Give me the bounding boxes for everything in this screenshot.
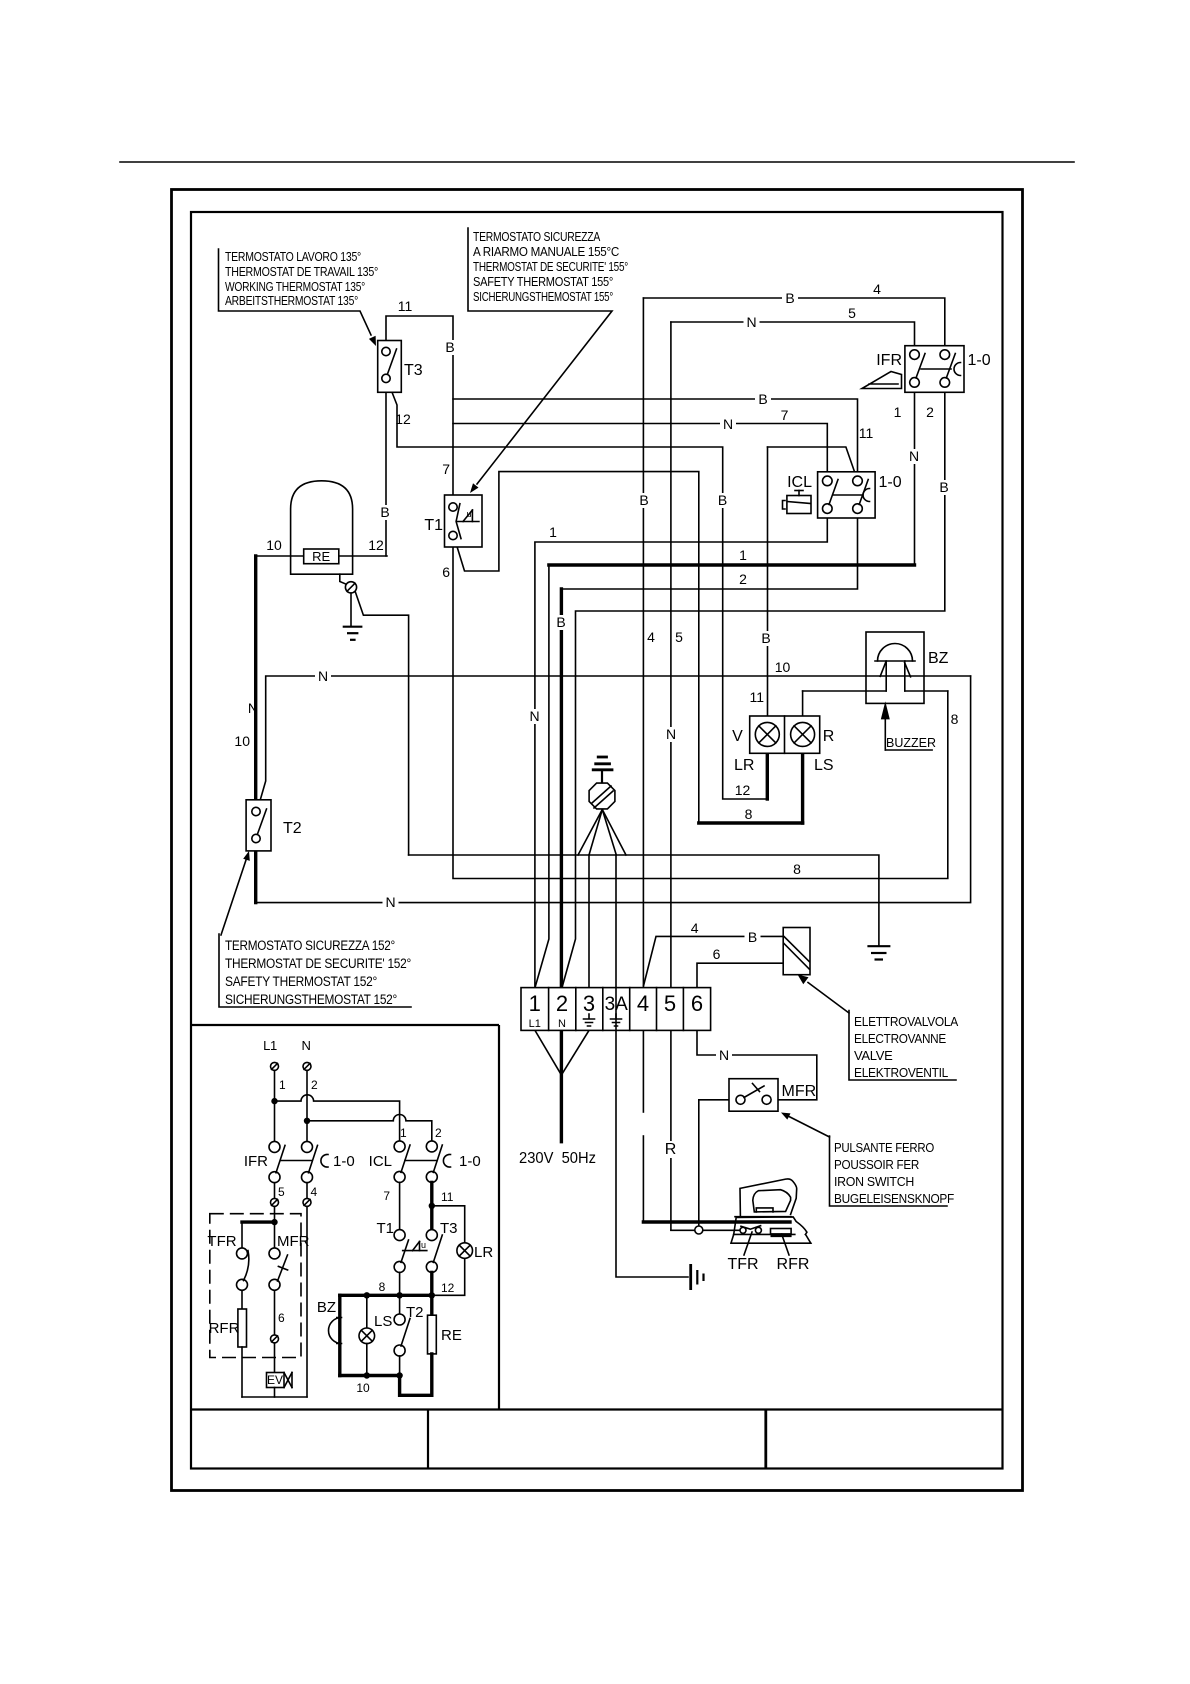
resistor RE box xyxy=(304,549,339,564)
svg-text:6: 6 xyxy=(442,564,450,580)
svg-text:11: 11 xyxy=(749,689,764,705)
svg-text:SICHERUNGSTHEMOSTAT 155°: SICHERUNGSTHEMOSTAT 155° xyxy=(473,290,613,304)
inset thick wire T3 to node 12 xyxy=(430,1272,433,1315)
svg-text:B: B xyxy=(748,929,757,945)
wire from MFR to iron junction xyxy=(699,1100,729,1230)
inset thermostat T3 xyxy=(426,1230,437,1241)
svg-text:TERMOSTATO LAVORO 135°: TERMOSTATO LAVORO 135° xyxy=(225,250,361,264)
wire N bottom run to right riser xyxy=(256,676,971,903)
wire 12 from T3 to lamp LR loop xyxy=(388,382,767,799)
wire 4 B to electrovalve xyxy=(644,936,784,985)
svg-text:B: B xyxy=(380,504,389,520)
terminal block below: V junction to 230V feed xyxy=(535,1030,561,1075)
svg-text:1: 1 xyxy=(529,991,541,1016)
pump fan wires xyxy=(578,810,602,856)
svg-text:B: B xyxy=(785,290,794,306)
inset lamp LR xyxy=(457,1243,473,1259)
boiler drain valve circle xyxy=(345,582,356,593)
wire earth through terminal 3A to bottom earth xyxy=(616,855,688,1277)
inset thick wire ICL to T3 xyxy=(430,1182,433,1229)
wire B from IFR pin2 to terminal 2 xyxy=(562,388,945,988)
title block divider 1 xyxy=(427,1410,429,1469)
inset switch ICL poles xyxy=(394,1141,405,1152)
iron handle latch xyxy=(756,1208,773,1212)
text block 152 border xyxy=(219,934,411,1007)
svg-text:2: 2 xyxy=(435,1126,442,1140)
svg-text:10: 10 xyxy=(234,733,250,749)
svg-text:N: N xyxy=(385,894,395,910)
pulsante text border xyxy=(830,1136,948,1206)
iron body bottom line xyxy=(734,1233,795,1235)
svg-text:11: 11 xyxy=(441,1190,454,1204)
wire B feed to lamp LR top xyxy=(767,447,769,723)
inset contact TFR xyxy=(237,1248,248,1259)
lamp box V R xyxy=(750,716,820,753)
svg-text:2: 2 xyxy=(926,404,934,420)
svg-text:2: 2 xyxy=(311,1078,318,1092)
pump motor chassis bars xyxy=(597,756,608,759)
top rule xyxy=(120,161,1074,163)
svg-text:1: 1 xyxy=(279,1078,286,1092)
iron base plate xyxy=(731,1234,811,1243)
inset wire L1 to ICL1 with bridge xyxy=(275,1095,400,1141)
svg-text:PULSANTE FERRO: PULSANTE FERRO xyxy=(834,1140,934,1155)
iron platform xyxy=(734,1217,807,1235)
svg-text:IFR: IFR xyxy=(244,1153,268,1170)
title block divider 2 xyxy=(764,1410,767,1469)
electrovalve leader arrow xyxy=(808,983,849,1014)
svg-text:5: 5 xyxy=(675,629,683,645)
wire 6 to electrovalve xyxy=(697,963,783,987)
svg-text:SAFETY THERMOSTAT 155°: SAFETY THERMOSTAT 155° xyxy=(473,275,613,289)
inset frame top xyxy=(191,1024,499,1026)
svg-text:ARBEITSTHERMOSTAT 135°: ARBEITSTHERMOSTAT 135° xyxy=(225,294,358,308)
svg-text:1: 1 xyxy=(400,1126,407,1140)
iron pictogram beside IFR xyxy=(862,372,902,389)
svg-text:4: 4 xyxy=(311,1185,318,1199)
svg-text:T3: T3 xyxy=(440,1220,458,1237)
wire from drain to pump fan run xyxy=(355,592,408,856)
svg-text:12: 12 xyxy=(735,782,751,798)
svg-text:4: 4 xyxy=(873,281,881,297)
wire B from T3 pin12 down to RE xyxy=(385,384,387,556)
svg-text:T1: T1 xyxy=(376,1220,394,1237)
svg-text:LS: LS xyxy=(814,757,834,774)
iron handle outline xyxy=(740,1179,797,1217)
svg-text:N: N xyxy=(301,1038,310,1053)
wire 4 B from IFR pin4 top xyxy=(643,298,944,349)
svg-text:2: 2 xyxy=(556,991,568,1016)
svg-text:LR: LR xyxy=(474,1244,493,1261)
svg-text:IRON SWITCH: IRON SWITCH xyxy=(834,1174,914,1189)
svg-text:230V 50Hz: 230V 50Hz xyxy=(519,1150,596,1167)
svg-text:4: 4 xyxy=(637,991,649,1016)
svg-text:1-0: 1-0 xyxy=(879,474,902,491)
buzzer dome xyxy=(878,644,913,662)
text block 155 leader arrow xyxy=(468,228,612,484)
wire N from terminal 6 to MFR xyxy=(697,1030,817,1099)
RFR leader xyxy=(782,1234,789,1255)
inset node N junction xyxy=(304,1118,310,1124)
svg-text:LR: LR xyxy=(734,757,754,774)
svg-text:1-0: 1-0 xyxy=(333,1153,355,1170)
svg-text:N: N xyxy=(909,448,919,464)
wire R from terminal 5 to iron xyxy=(670,1030,672,1230)
inset thermostat T1 xyxy=(394,1230,405,1241)
inset thick branch to TFR xyxy=(242,1220,275,1223)
svg-text:V: V xyxy=(732,728,743,745)
on-wire letter labels with background xyxy=(782,291,798,306)
MFR leader arrow xyxy=(787,1116,830,1138)
wire N T2 bottom thick down xyxy=(254,844,257,903)
svg-text:B: B xyxy=(445,339,454,355)
pump stem xyxy=(601,770,603,783)
terminal 3A pass-through wire xyxy=(615,988,617,1031)
svg-text:N: N xyxy=(723,416,733,432)
svg-text:8: 8 xyxy=(951,711,959,727)
svg-text:12: 12 xyxy=(395,411,411,427)
svg-text:N: N xyxy=(558,1018,566,1030)
svg-text:1: 1 xyxy=(739,547,747,563)
lamp LR bottom stub thick xyxy=(766,752,769,799)
svg-text:RFR: RFR xyxy=(777,1256,810,1273)
inset wire MFR to EV xyxy=(274,1290,276,1335)
inset wire N down xyxy=(306,1070,308,1141)
wire 7 from T1 feed node to ICL pin top-left xyxy=(453,424,827,476)
wire 1 from ICL pin to terminal 1 xyxy=(535,514,827,988)
junction circle at iron xyxy=(695,1226,703,1234)
earth symbol right xyxy=(867,945,890,947)
svg-text:B: B xyxy=(718,492,727,508)
terminal earth glyph cell 3A xyxy=(611,1014,622,1026)
svg-text:8: 8 xyxy=(745,806,753,822)
switch MFR box xyxy=(729,1079,778,1112)
svg-text:TERMOSTATO SICUREZZA 152°: TERMOSTATO SICUREZZA 152° xyxy=(225,938,395,953)
wire segment 11 into ICL pin with diagonal xyxy=(768,447,857,476)
pump motor octagon xyxy=(589,783,615,809)
svg-text:TERMOSTATO SICUREZZA: TERMOSTATO SICUREZZA xyxy=(473,230,601,244)
svg-text:12: 12 xyxy=(368,537,384,553)
lamp LS bottom stub thick xyxy=(801,752,804,823)
svg-text:VALVE: VALVE xyxy=(854,1048,893,1063)
inset supply terminal N xyxy=(303,1062,311,1070)
svg-text:T2: T2 xyxy=(406,1304,424,1321)
svg-text:ELETTROVALVOLA: ELETTROVALVOLA xyxy=(854,1014,959,1029)
switch IFR xyxy=(905,346,964,393)
svg-text:6: 6 xyxy=(713,946,721,962)
svg-text:10: 10 xyxy=(356,1381,370,1395)
lamp LR xyxy=(755,722,779,746)
svg-text:RE: RE xyxy=(312,549,330,564)
inset thick rail 8 xyxy=(340,1294,432,1297)
wire from T1 pin6 down to buzzer 8 run xyxy=(453,541,948,879)
terminal block xyxy=(521,988,711,1031)
wire 8 buzzer run to lamp LS top xyxy=(803,690,887,692)
inset thick rail 10 xyxy=(340,1374,400,1377)
svg-text:4: 4 xyxy=(691,920,699,936)
svg-text:L1: L1 xyxy=(529,1018,541,1030)
svg-text:ELECTROVANNE: ELECTROVANNE xyxy=(854,1031,947,1046)
svg-text:THERMOSTAT DE SECURITE' 152°: THERMOSTAT DE SECURITE' 152° xyxy=(225,956,411,971)
terminal earth glyph cell 3 xyxy=(584,1014,595,1026)
wire N 10 top run from T2 top xyxy=(259,676,971,806)
text block 152 leader arrow xyxy=(221,860,246,935)
inset bottom rail left xyxy=(242,1396,307,1398)
svg-text:LS: LS xyxy=(374,1313,392,1330)
svg-text:N: N xyxy=(248,700,258,716)
svg-text:POUSSOIR FER: POUSSOIR FER xyxy=(834,1157,919,1172)
wire 5 vertical down to terminal 5 xyxy=(670,322,672,988)
inset wire T1 to rail 8 xyxy=(399,1272,401,1295)
earth symbol at boiler xyxy=(343,626,363,628)
svg-text:TFR: TFR xyxy=(207,1233,236,1250)
svg-text:u: u xyxy=(421,1240,426,1250)
inset dashed relay box xyxy=(210,1214,301,1358)
inset wire N to ICL2 with bridge xyxy=(307,1115,432,1141)
svg-text:10: 10 xyxy=(266,537,282,553)
outer drawing frame xyxy=(172,190,1023,1491)
wire 5 N to IFR top-left xyxy=(671,322,915,349)
svg-text:8: 8 xyxy=(379,1280,386,1294)
inset frame right xyxy=(498,1025,500,1410)
wire 12 RE right segment xyxy=(339,555,387,557)
svg-text:R: R xyxy=(665,1141,677,1158)
svg-text:5: 5 xyxy=(848,305,856,321)
svg-text:MFR: MFR xyxy=(782,1083,817,1100)
boiler RE vessel xyxy=(291,481,353,574)
wire B from node at T1 feed to ICL pin 11 vertical xyxy=(453,399,858,476)
inset wire LR bottom xyxy=(432,1258,465,1295)
buzzer arrow xyxy=(884,716,886,750)
svg-text:A RIARMO MANUALE 155°C: A RIARMO MANUALE 155°C xyxy=(473,245,619,259)
svg-text:3A: 3A xyxy=(605,994,629,1015)
wire to terminal 3 xyxy=(588,855,590,988)
inset wire N return down right side of dashed box xyxy=(306,1206,308,1397)
svg-text:5: 5 xyxy=(278,1185,285,1199)
inset coil EV xyxy=(267,1373,285,1388)
svg-text:B: B xyxy=(639,492,648,508)
iron handle hole xyxy=(753,1190,791,1212)
inset switch IFR poles xyxy=(269,1141,280,1152)
svg-text:B: B xyxy=(758,391,767,407)
thermostat T1 xyxy=(445,495,483,547)
elettrovalvola text border xyxy=(849,1011,956,1081)
inset IFR lower terminals 5 4 xyxy=(274,1183,276,1199)
inset thermostat T2 xyxy=(399,1295,401,1314)
svg-text:WORKING THERMOSTAT 135°: WORKING THERMOSTAT 135° xyxy=(225,280,365,294)
thermostat T2 xyxy=(246,800,271,851)
svg-text:B: B xyxy=(761,630,770,646)
svg-text:N: N xyxy=(719,1047,729,1063)
svg-text:ELEKTROVENTIL: ELEKTROVENTIL xyxy=(854,1065,948,1080)
wire 8 fan run to earth right xyxy=(409,855,879,946)
svg-text:1-0: 1-0 xyxy=(968,352,991,369)
svg-text:T1: T1 xyxy=(424,517,443,534)
pump pictogram beside ICL xyxy=(787,496,811,514)
svg-text:2: 2 xyxy=(739,571,747,587)
boiler drain circle stub xyxy=(340,574,346,584)
inset wire 7 ICL to T1 xyxy=(399,1182,401,1229)
svg-text:5: 5 xyxy=(664,991,676,1016)
buzzer label underline xyxy=(885,749,932,751)
wire 6 from T1 pin to lamp LS bottom loop xyxy=(455,472,699,823)
svg-text:L1: L1 xyxy=(263,1038,277,1053)
inset resistor RE leg xyxy=(428,1315,437,1354)
svg-text:SAFETY THERMOSTAT 152°: SAFETY THERMOSTAT 152° xyxy=(225,974,377,989)
inset supply terminal L1 xyxy=(271,1062,279,1070)
wire 10 thick from RE to T2 xyxy=(254,556,257,806)
svg-text:B: B xyxy=(556,614,565,630)
svg-text:RFR: RFR xyxy=(209,1320,240,1337)
wire N from IFR pin1 thick run to terminal 1 xyxy=(914,388,916,565)
inset wire L1 to relay box node xyxy=(274,1206,276,1248)
svg-text:EV: EV xyxy=(267,1373,283,1387)
svg-text:N: N xyxy=(746,314,756,330)
svg-text:N: N xyxy=(318,668,328,684)
svg-text:6: 6 xyxy=(278,1311,285,1325)
svg-text:8: 8 xyxy=(793,861,801,877)
svg-text:BUZZER: BUZZER xyxy=(886,736,936,750)
svg-text:12: 12 xyxy=(441,1281,455,1295)
inset buzzer BZ xyxy=(338,1295,341,1375)
svg-text:TFR: TFR xyxy=(727,1256,758,1273)
inset switch MFR xyxy=(269,1248,280,1259)
svg-text:SICHERUNGSTHEMOSTAT 152°: SICHERUNGSTHEMOSTAT 152° xyxy=(225,992,397,1007)
svg-text:11: 11 xyxy=(859,425,874,441)
wire 2 from ICL pin thick into terminal 2 xyxy=(561,514,857,589)
svg-text:3: 3 xyxy=(583,991,595,1016)
svg-text:MFR: MFR xyxy=(277,1233,310,1250)
svg-text:IFR: IFR xyxy=(876,352,902,369)
wire T3 pin11 to node B down to T1 pin7 xyxy=(386,316,453,502)
svg-text:N: N xyxy=(666,726,676,742)
lamp LS xyxy=(791,722,815,746)
svg-text:7: 7 xyxy=(442,461,450,477)
switch ICL xyxy=(818,472,876,518)
svg-text:B: B xyxy=(939,479,948,495)
thermostat T3 xyxy=(378,341,402,393)
svg-text:THERMOSTAT DE SECURITE' 155°: THERMOSTAT DE SECURITE' 155° xyxy=(473,260,628,274)
earth symbol bottom xyxy=(689,1264,692,1290)
svg-text:ICL: ICL xyxy=(369,1153,392,1170)
RFR resistor in iron xyxy=(771,1229,792,1234)
TFR leader xyxy=(744,1232,752,1255)
svg-text:BZ: BZ xyxy=(928,650,949,667)
buzzer BZ box xyxy=(866,632,924,703)
svg-text:R: R xyxy=(823,728,835,745)
svg-text:BZ: BZ xyxy=(317,1299,336,1316)
TFR contact in iron xyxy=(741,1226,761,1230)
230V feed thick xyxy=(560,1030,563,1141)
svg-text:RE: RE xyxy=(441,1327,462,1344)
svg-text:7: 7 xyxy=(781,407,789,423)
svg-text:10: 10 xyxy=(775,659,791,675)
svg-text:1: 1 xyxy=(894,404,902,420)
inset node L1 junction xyxy=(271,1098,277,1104)
svg-text:N: N xyxy=(529,708,539,724)
svg-text:BUGELEISENSKNOPF: BUGELEISENSKNOPF xyxy=(834,1191,954,1206)
title block top line xyxy=(191,1408,1003,1410)
wire 4 to iron with crossover break xyxy=(642,1030,644,1112)
wire 4 vertical down to terminal 4 xyxy=(642,298,644,988)
svg-text:T2: T2 xyxy=(283,820,302,837)
inset wire L1 down xyxy=(274,1070,276,1141)
inset lamp LS xyxy=(366,1295,368,1328)
svg-text:T3: T3 xyxy=(404,362,423,379)
svg-text:1-0: 1-0 xyxy=(459,1153,481,1170)
text block 135 leader arrow xyxy=(219,249,372,335)
svg-text:6: 6 xyxy=(691,991,703,1016)
svg-text:1: 1 xyxy=(549,524,557,540)
svg-text:4: 4 xyxy=(647,629,655,645)
inset resistor RFR xyxy=(241,1290,243,1309)
svg-text:THERMOSTAT DE TRAVAIL 135°: THERMOSTAT DE TRAVAIL 135° xyxy=(225,265,378,279)
electrovalve EV box xyxy=(783,928,810,975)
svg-text:11: 11 xyxy=(398,298,413,314)
wire 10 RE left segment xyxy=(256,555,304,557)
inset wire 11 branch to LR xyxy=(432,1206,465,1243)
boiler drain to earth xyxy=(350,593,352,627)
svg-text:u: u xyxy=(467,509,472,519)
inner drawing frame xyxy=(191,212,1003,1469)
svg-text:ICL: ICL xyxy=(787,474,812,491)
svg-text:7: 7 xyxy=(383,1189,390,1203)
